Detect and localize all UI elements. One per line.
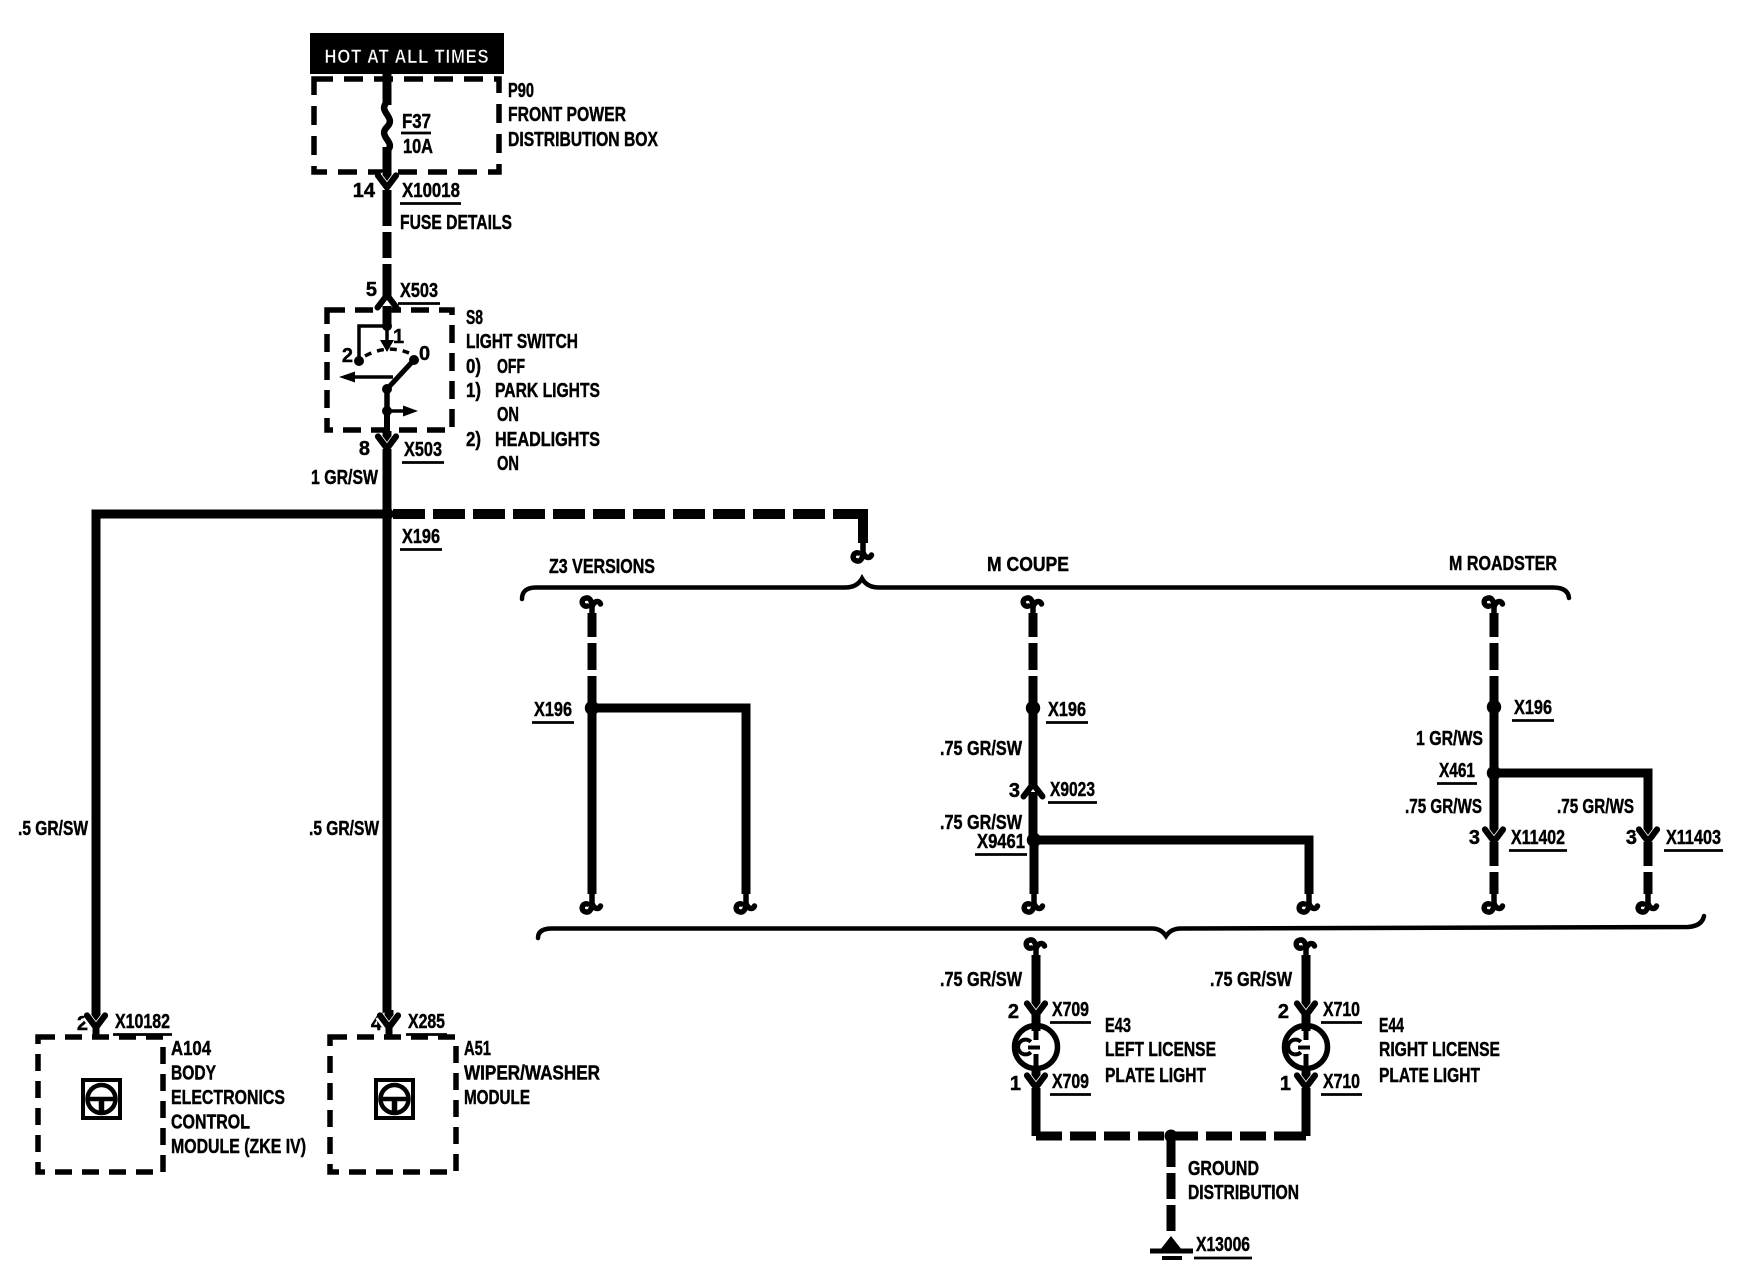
svg-text:FUSE DETAILS: FUSE DETAILS (400, 212, 512, 234)
wire break hook (M Roadster bottom) (1484, 892, 1502, 912)
svg-text:2: 2 (342, 345, 353, 367)
svg-text:5: 5 (366, 279, 377, 301)
switch S8 wire to contact 2 (359, 326, 387, 357)
wire X461 down (1490, 777, 1499, 829)
wire battery feed into P90 (383, 72, 392, 105)
connector X10018 (378, 176, 396, 188)
svg-text:X710: X710 (1323, 1071, 1360, 1093)
svg-text:14: 14 (353, 180, 376, 202)
svg-text:X196: X196 (534, 699, 572, 721)
switch pole contact 1 (380, 340, 394, 352)
wire X11403 down (1644, 842, 1653, 894)
wire break hook (M Roadster top) (1484, 598, 1502, 618)
connector X11402 (1485, 830, 1503, 842)
svg-text:X196: X196 (1048, 699, 1086, 721)
connector X285 (380, 1016, 398, 1028)
svg-text:2): 2) (466, 429, 481, 451)
wire X11402 down (1490, 842, 1499, 894)
switch S8 input wire (383, 306, 392, 327)
svg-text:X11402: X11402 (1511, 827, 1565, 849)
wire X196 to A51 (middle branch) (383, 519, 392, 1015)
switch rotation arrow left (344, 375, 393, 379)
wire X9461 down (1030, 844, 1039, 894)
svg-text:MODULE (ZKE IV): MODULE (ZKE IV) (171, 1136, 306, 1158)
svg-text:LEFT LICENSE: LEFT LICENSE (1105, 1039, 1216, 1061)
wire fuse to connector X10018 (383, 147, 392, 179)
switch output wire upper (384, 389, 390, 411)
connector X710 pin 2 (1297, 1004, 1315, 1016)
wire break hook (M Coupe top) (1023, 598, 1041, 618)
svg-text:M COUPE: M COUPE (987, 554, 1069, 576)
ground junction (1165, 1130, 1178, 1143)
switch lever junction (382, 384, 392, 394)
switch rotation arrow right (387, 409, 407, 413)
wire break hook (M Coupe loop bottom) (1299, 892, 1317, 912)
svg-text:X11403: X11403 (1666, 827, 1721, 849)
variant brace upper (522, 579, 1569, 600)
wire break hook (Z3 top) (582, 598, 600, 618)
svg-text:.75 GR/SW: .75 GR/SW (940, 969, 1022, 991)
svg-text:3: 3 (1009, 780, 1020, 802)
svg-text:M ROADSTER: M ROADSTER (1449, 553, 1557, 575)
svg-text:MODULE: MODULE (464, 1087, 530, 1109)
connector X10182 (87, 1016, 105, 1028)
svg-text:0: 0 (419, 343, 430, 365)
svg-text:Z3 VERSIONS: Z3 VERSIONS (549, 556, 655, 578)
ground symbol X13006 (1160, 1236, 1182, 1250)
wire junction to ground (1167, 1141, 1176, 1233)
svg-text:X503: X503 (400, 280, 438, 302)
svg-text:X461: X461 (1439, 760, 1475, 782)
wire X9461 loop (1034, 840, 1309, 894)
svg-text:.75 GR/WS: .75 GR/WS (1557, 796, 1634, 818)
svg-text:10A: 10A (403, 136, 433, 158)
dashed wire corner down (845, 509, 863, 543)
svg-text:E44: E44 (1379, 1015, 1405, 1037)
wire X9023 to X9461 (1029, 792, 1038, 836)
svg-text:PLATE LIGHT: PLATE LIGHT (1105, 1065, 1206, 1087)
wire X10018 to light switch pin 5 (383, 190, 392, 297)
svg-text:1: 1 (1010, 1073, 1021, 1095)
svg-text:E43: E43 (1105, 1015, 1131, 1037)
switch contact 2 (354, 356, 364, 366)
svg-text:X10018: X10018 (402, 180, 460, 202)
wire break hook (feed) (853, 541, 871, 561)
node X196 (Z3) (585, 701, 599, 715)
fuse F37 (384, 102, 390, 151)
svg-text:PARK LIGHTS: PARK LIGHTS (495, 380, 600, 402)
lamp E44 RIGHT LICENSE PLATE LIGHT (1302, 1014, 1311, 1031)
module A51 box (330, 1037, 456, 1172)
svg-text:HEADLIGHTS: HEADLIGHTS (495, 429, 600, 451)
wire break hook (M Roadster loop bottom) (1638, 892, 1656, 912)
svg-text:X10182: X10182 (115, 1011, 170, 1033)
wire X196 to A104 (left branch) (96, 514, 387, 1015)
power label HOT AT ALL TIMES (310, 33, 504, 74)
svg-text:1: 1 (393, 326, 404, 348)
steering wheel icon A104 (83, 1080, 120, 1118)
wire X196 to X9023 (1029, 713, 1038, 789)
connector X11403 (1639, 830, 1657, 842)
module A104 box (38, 1037, 163, 1172)
svg-text:.5 GR/SW: .5 GR/SW (309, 818, 379, 840)
lamp E43 LEFT LICENSE PLATE LIGHT (1032, 1014, 1041, 1031)
switch lever (387, 361, 413, 389)
svg-text:S8: S8 (466, 307, 483, 329)
svg-text:X9461: X9461 (977, 831, 1025, 853)
node X461 (1487, 766, 1501, 780)
svg-text:A51: A51 (464, 1038, 491, 1060)
svg-text:X285: X285 (408, 1011, 445, 1033)
svg-text:ON: ON (497, 453, 519, 475)
svg-text:3: 3 (1469, 827, 1480, 849)
switch contact 0 (409, 355, 419, 365)
svg-text:.5 GR/SW: .5 GR/SW (18, 818, 88, 840)
svg-text:A104: A104 (171, 1038, 212, 1060)
svg-text:DISTRIBUTION BOX: DISTRIBUTION BOX (508, 129, 659, 151)
svg-text:X709: X709 (1052, 1071, 1089, 1093)
svg-text:.75 GR/SW: .75 GR/SW (940, 738, 1022, 760)
connector X503 pin 5 (378, 295, 397, 308)
wire feed to E43 (1032, 955, 1041, 1007)
wire E43 to ground bus (1032, 1088, 1041, 1136)
wire break hook (M Coupe bottom) (1024, 892, 1042, 912)
svg-text:X709: X709 (1052, 999, 1089, 1021)
wire connector to A104 (93, 1028, 100, 1039)
svg-text:FRONT POWER: FRONT POWER (508, 104, 626, 126)
svg-text:X196: X196 (1514, 697, 1552, 719)
svg-text:X196: X196 (402, 526, 440, 548)
wire Z3 branch lower (588, 712, 597, 894)
svg-text:CONTROL: CONTROL (171, 1112, 250, 1134)
fuse box P90 FRONT POWER DISTRIBUTION BOX (314, 79, 499, 172)
wire X461 loop (1494, 773, 1648, 829)
svg-text:ON: ON (497, 404, 519, 426)
connector X709 pin 1 (1027, 1076, 1045, 1088)
svg-text:1): 1) (466, 380, 481, 402)
variant brace lower (538, 916, 1704, 938)
svg-text:X9023: X9023 (1050, 779, 1095, 801)
svg-text:2: 2 (1008, 1001, 1019, 1023)
svg-text:RIGHT LICENSE: RIGHT LICENSE (1379, 1039, 1500, 1061)
node X196 junction (381, 508, 394, 521)
svg-text:X503: X503 (404, 439, 442, 461)
svg-text:BODY: BODY (171, 1063, 217, 1085)
wire Z3 branch upper (588, 613, 597, 704)
svg-text:1: 1 (1280, 1073, 1291, 1095)
svg-text:PLATE LIGHT: PLATE LIGHT (1379, 1065, 1480, 1087)
dashed wire X196 to variant brace (393, 509, 849, 519)
switch rotary arc (365, 349, 409, 356)
switch S8 output wire (384, 411, 390, 434)
node X9461 (1027, 833, 1041, 847)
wire M Roadster upper (1490, 613, 1499, 703)
svg-text:HOT AT ALL TIMES: HOT AT ALL TIMES (325, 47, 490, 68)
wire X196 to X461 (1490, 711, 1499, 769)
svg-text:.75 GR/WS: .75 GR/WS (1405, 796, 1482, 818)
wire break hook (E44 feed top) (1296, 940, 1314, 960)
ground bus dashed (1036, 1132, 1306, 1141)
wire feed to E44 (1302, 955, 1311, 1007)
svg-text:0): 0) (466, 356, 481, 378)
wire E44 to ground bus (1302, 1088, 1311, 1136)
light switch S8 box (327, 310, 452, 430)
svg-text:GROUND: GROUND (1188, 1158, 1259, 1180)
switch S8 pole wire (385, 326, 389, 341)
wire switch to node X196 (383, 449, 392, 514)
connector X503 pin 8 (378, 437, 396, 449)
svg-text:DISTRIBUTION: DISTRIBUTION (1188, 1182, 1299, 1204)
connector X709 pin 2 (1027, 1004, 1045, 1016)
node X196 (M Roadster) (1487, 700, 1501, 714)
node X196 (M Coupe) (1026, 701, 1040, 715)
connector X9023 (1024, 784, 1043, 797)
svg-text:2: 2 (1278, 1001, 1289, 1023)
switch S8 input junction (382, 321, 392, 331)
wire M Coupe upper (1029, 613, 1038, 704)
svg-text:X13006: X13006 (1196, 1234, 1250, 1256)
wire break hook (Z3 bottom) (582, 892, 600, 912)
svg-text:WIPER/WASHER: WIPER/WASHER (464, 1063, 600, 1085)
steering wheel icon A51 (376, 1080, 413, 1118)
svg-text:X710: X710 (1323, 999, 1360, 1021)
svg-text:3: 3 (1626, 827, 1637, 849)
svg-text:LIGHT SWITCH: LIGHT SWITCH (466, 331, 578, 353)
svg-text:8: 8 (359, 438, 370, 460)
svg-text:1 GR/SW: 1 GR/SW (311, 467, 378, 489)
wire Z3 loop (592, 708, 746, 894)
svg-text:F37: F37 (402, 111, 431, 133)
connector X710 pin 1 (1297, 1076, 1315, 1088)
svg-text:1 GR/WS: 1 GR/WS (1416, 728, 1483, 750)
svg-text:ELECTRONICS: ELECTRONICS (171, 1087, 285, 1109)
svg-text:P90: P90 (508, 80, 534, 102)
switch output junction (382, 406, 392, 416)
svg-text:OFF: OFF (497, 356, 525, 378)
wire connector to A51 (386, 1028, 393, 1039)
wire break hook (E43 feed top) (1026, 940, 1044, 960)
wire break hook (Z3 loop bottom) (736, 892, 754, 912)
svg-text:.75 GR/SW: .75 GR/SW (1210, 969, 1292, 991)
